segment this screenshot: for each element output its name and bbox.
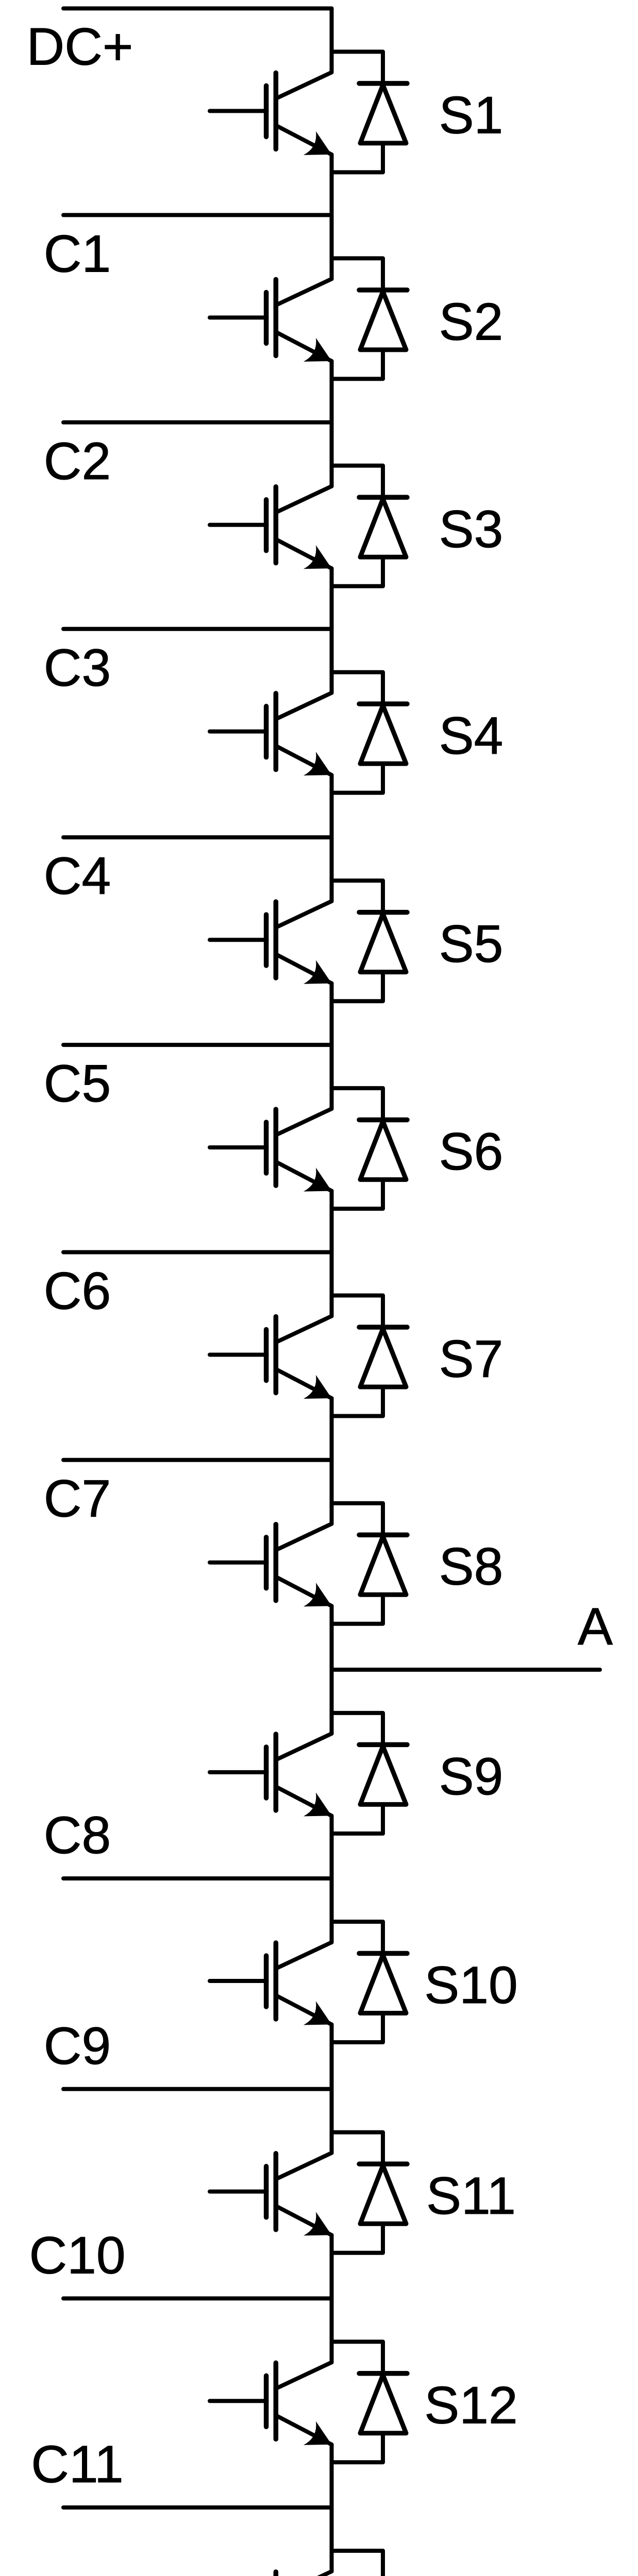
wire collector bus segment above S9 [330,1670,334,1734]
diode D9 (antiparallel of S9) [332,1713,408,1834]
IGBT Q13 (switch S13) [210,2571,332,2576]
wire collector bus segment above S5 [330,837,334,901]
node C6 tap wire [63,1250,332,1255]
IGBT Q10 (switch S10) [210,1942,332,2025]
svg-text:S7: S7 [439,1330,503,1388]
IGBT Q12 (switch S12) [210,2362,332,2445]
label S11 [426,2166,516,2225]
svg-text:S3: S3 [439,500,503,558]
wire emitter bus segment below S7 [330,1398,334,1460]
svg-text:S1: S1 [439,86,503,144]
label C11 [31,2435,124,2494]
node C2 tap wire [63,420,332,425]
wire collector bus segment above S6 [330,1045,334,1109]
node C8 tap wire [63,1876,332,1880]
wire emitter bus segment below S9 [330,1816,334,1878]
label S6 [439,1122,503,1181]
wire collector bus segment above S10 [330,1878,334,1942]
wire collector bus segment above S13 [330,2507,334,2571]
IGBT Q11 (switch S11) [210,2153,332,2236]
diode D8 (antiparallel of S8) [332,1503,408,1624]
svg-text:A: A [578,1597,613,1656]
diode D5 (antiparallel of S5) [332,880,408,1001]
svg-text:C5: C5 [44,1054,111,1113]
node C5 tap wire [63,1043,332,1047]
label S5 [439,914,503,973]
node C3 tap wire [63,627,332,631]
node C10 tap wire [63,2296,332,2300]
svg-text:C11: C11 [31,2435,124,2494]
wire emitter bus segment below S4 [330,775,334,837]
label S1 [439,86,503,144]
label S3 [439,500,503,558]
wire collector bus segment above S4 [330,629,334,693]
svg-text:S10: S10 [424,1956,518,2014]
node C4 tap wire [63,835,332,839]
label C1 [44,224,111,283]
diode D10 (antiparallel of S10) [332,1922,408,2042]
svg-text:C6: C6 [44,1262,111,1320]
wire emitter bus segment below S6 [330,1191,334,1252]
diode D13 (antiparallel of S13) [332,2551,408,2576]
wire emitter bus segment below S3 [330,568,334,629]
label A [578,1597,613,1656]
wire emitter bus segment below S8 [330,1606,334,1670]
svg-text:DC+: DC+ [27,17,133,76]
diode D11 (antiparallel of S11) [332,2132,408,2253]
wire collector bus segment above S11 [330,2089,334,2153]
wire collector bus segment above S7 [330,1252,334,1316]
diode D7 (antiparallel of S7) [332,1296,408,1416]
svg-text:C9: C9 [44,2016,111,2075]
label C2 [44,432,111,490]
output node A wire [332,1668,600,1672]
wire collector bus segment above S8 [330,1460,334,1524]
node C11 tap wire [63,2505,332,2510]
label C8 [44,1806,111,1865]
svg-text:S2: S2 [439,292,503,351]
IGBT Q6 (switch S6) [210,1109,332,1192]
wire emitter bus segment below S5 [330,984,334,1045]
label C3 [44,638,111,697]
wire emitter bus segment below S12 [330,2445,334,2507]
node C1 tap wire [63,213,332,217]
node C7 tap wire [63,1458,332,1462]
wire collector bus segment above S2 [330,215,334,279]
wire collector bus segment above S12 [330,2298,334,2362]
svg-text:C2: C2 [44,432,111,490]
diode D4 (antiparallel of S4) [332,672,408,793]
svg-text:C8: C8 [44,1806,111,1865]
wire emitter bus segment below S11 [330,2235,334,2298]
label S8 [439,1537,503,1596]
label C6 [44,1262,111,1320]
label S7 [439,1330,503,1388]
label C10 [29,2226,125,2284]
IGBT Q8 (switch S8) [210,1524,332,1607]
svg-text:C1: C1 [44,224,111,283]
DC+ rail wire [63,6,332,10]
diode D3 (antiparallel of S3) [332,466,408,586]
label S4 [439,706,503,765]
svg-text:S12: S12 [424,2376,518,2434]
label S10 [424,1956,518,2014]
diode D2 (antiparallel of S2) [332,258,408,379]
wire emitter bus segment below S1 [330,155,334,215]
label S2 [439,292,503,351]
IGBT Q9 (switch S9) [210,1734,332,1817]
label S12 [424,2376,518,2434]
svg-text:S5: S5 [439,914,503,973]
svg-text:C4: C4 [44,846,111,905]
svg-text:S4: S4 [439,706,503,765]
label C5 [44,1054,111,1113]
wire emitter bus segment below S2 [330,361,334,422]
svg-text:C10: C10 [29,2226,125,2284]
label DC+ [27,17,133,76]
diode D12 (antiparallel of S12) [332,2342,408,2462]
label C7 [44,1469,111,1528]
IGBT Q2 (switch S2) [210,279,332,362]
label C9 [44,2016,111,2075]
svg-text:S8: S8 [439,1537,503,1596]
label S9 [439,1747,503,1806]
IGBT Q4 (switch S4) [210,693,332,776]
IGBT Q7 (switch S7) [210,1316,332,1399]
diode D6 (antiparallel of S6) [332,1088,408,1209]
wire emitter bus segment below S10 [330,2025,334,2089]
svg-text:S6: S6 [439,1122,503,1181]
IGBT Q5 (switch S5) [210,901,332,984]
wire collector bus segment above S3 [330,422,334,486]
diode D1 (antiparallel of S1) [332,52,408,172]
node C9 tap wire [63,2087,332,2091]
label C4 [44,846,111,905]
IGBT Q1 (switch S1) [210,72,332,155]
wire collector bus segment above S1 [330,8,334,72]
svg-text:S11: S11 [426,2166,516,2225]
svg-text:S9: S9 [439,1747,503,1806]
svg-text:C3: C3 [44,638,111,697]
svg-text:C7: C7 [44,1469,111,1528]
IGBT Q3 (switch S3) [210,486,332,569]
